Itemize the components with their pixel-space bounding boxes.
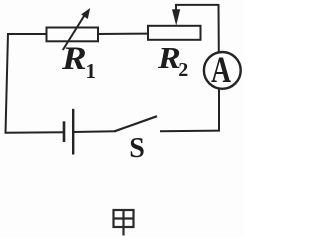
wire battery to switch pivot [73,130,116,133]
wire bottom-left to battery [5,131,65,134]
resistor R1 arrow (rheostat diagonal) [63,8,90,50]
caption 甲 [105,202,145,238]
battery long plate (+) [72,109,74,155]
wire left vertical [6,33,9,133]
wire R1 to R2 [98,33,148,35]
wire right vertical to ammeter [218,4,220,52]
wire bottom-right horizontal [160,130,220,133]
switch S lever (open) [115,116,158,131]
resistor R1 body [47,28,99,42]
resistor R2 wiper arrow [172,5,180,26]
battery short plate (-) [63,121,66,142]
ammeter A [204,52,241,89]
ammeter letter A [206,52,236,89]
resistor R2 body [148,26,201,40]
label R1 [62,43,96,82]
wire top-left horizontal [8,33,47,35]
wire ammeter to bottom-right corner [218,89,220,132]
label R2 [158,42,188,80]
label S [125,135,149,163]
wire wiper to top-right corner [175,4,219,6]
